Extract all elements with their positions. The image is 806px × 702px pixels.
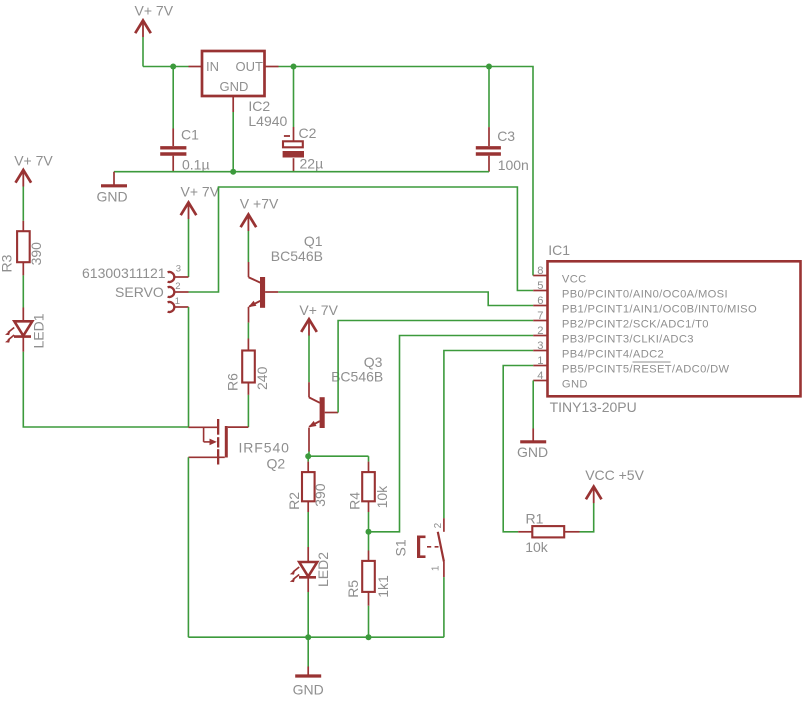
wire LED2 to bottom rail <box>307 592 309 637</box>
svg-text:GND: GND <box>517 444 548 460</box>
svg-text:PB0/PCINT0/AIN0/OC0A/MOSI: PB0/PCINT0/AIN0/OC0A/MOSI <box>562 288 728 300</box>
supply symbol V+ (Q1) <box>241 215 257 232</box>
resistor R5 1k1 <box>362 532 375 606</box>
resistor R1 10k (horizontal) <box>518 526 579 537</box>
wire LED1 to MOSFET gate <box>23 352 188 427</box>
svg-text:R5: R5 <box>345 580 361 598</box>
svg-text:390: 390 <box>312 483 328 507</box>
svg-text:BC546B: BC546B <box>331 369 383 385</box>
switch S1 pin 2 <box>443 518 445 532</box>
wire R6 to MOSFET drain <box>247 395 249 427</box>
svg-text:PB4/PCINT4/ADC2: PB4/PCINT4/ADC2 <box>562 348 664 360</box>
wire R1 to VCC arrow <box>580 503 594 532</box>
wire IC2 GND pin down <box>232 112 234 172</box>
svg-text:BC546B: BC546B <box>271 248 323 264</box>
svg-text:2: 2 <box>175 281 180 292</box>
resistor R2 390 <box>302 456 315 512</box>
label LED1 <box>31 313 47 348</box>
wire bottom rail to ground <box>307 637 309 666</box>
label R5 <box>345 580 361 598</box>
svg-text:R6: R6 <box>225 373 241 391</box>
svg-text:240: 240 <box>254 366 270 390</box>
wire Q3 emitter to node <box>308 452 310 457</box>
wire servo pin1 down to gate net <box>188 307 190 427</box>
junction C3/rail <box>486 64 492 70</box>
net label V+ 7V (servo) <box>181 184 220 200</box>
svg-text:3: 3 <box>176 264 181 275</box>
label 61300311121 <box>82 265 166 281</box>
capacitor C3 100n <box>476 67 501 172</box>
label IC2 <box>248 98 270 114</box>
svg-text:L4940: L4940 <box>248 113 287 129</box>
label R6 <box>225 373 241 391</box>
svg-text:3: 3 <box>537 340 543 352</box>
label Q2 <box>267 456 286 472</box>
wire Q3 base to IC1 PB2 pin7 <box>338 321 533 413</box>
wire Q1 emitter to R6 <box>247 323 249 339</box>
wire rail to IC2 IN <box>143 66 189 68</box>
svg-text:7: 7 <box>537 310 543 322</box>
junction C2/rail <box>291 64 297 70</box>
label R1 <box>526 511 544 527</box>
net label V+ 7V (top) <box>135 3 174 19</box>
label TINY13-20PU <box>550 399 637 415</box>
junction LED2/bottom rail <box>305 634 311 640</box>
svg-text:TINY13-20PU: TINY13-20PU <box>550 399 637 415</box>
svg-text:C1: C1 <box>181 127 199 143</box>
wire Q1 base to IC1 PB1 pin6 <box>278 292 533 306</box>
svg-text:IRF540: IRF540 <box>239 440 290 456</box>
label GND (bottom) <box>293 682 324 698</box>
LED LED1 <box>5 308 32 352</box>
svg-text:V+ 7V: V+ 7V <box>299 302 338 318</box>
label Q1 <box>304 233 323 249</box>
svg-text:S1: S1 <box>393 539 409 556</box>
svg-text:V+ 7V: V+ 7V <box>14 153 53 169</box>
junction C1/rail <box>170 64 176 70</box>
svg-text:22µ: 22µ <box>300 155 324 171</box>
wire rail to IC1 VCC pin8 <box>489 67 533 276</box>
svg-text:VCC: VCC <box>562 273 587 285</box>
wire MOSFET source down <box>187 457 189 637</box>
label 390 (R2) <box>312 483 328 507</box>
svg-text:VCC +5V: VCC +5V <box>585 467 644 483</box>
svg-text:Q3: Q3 <box>364 354 383 370</box>
MOSFET Q2 IRF540 <box>188 419 248 465</box>
svg-text:GND: GND <box>220 79 249 94</box>
wire R2 to LED2 <box>307 512 309 547</box>
net label V +7V (Q1) <box>240 196 279 212</box>
pin number 3 (SERVO) <box>176 264 181 275</box>
svg-text:2: 2 <box>433 522 444 528</box>
wire bottom rail <box>188 636 444 638</box>
connector SERVO pin 2 <box>168 287 189 297</box>
wire R5 to bottom rail <box>368 606 370 637</box>
svg-text:V+ 7V: V+ 7V <box>135 3 174 19</box>
svg-text:1: 1 <box>175 296 180 307</box>
pin number 2 (SERVO) <box>175 281 180 292</box>
svg-text:GND: GND <box>97 188 128 204</box>
label C2 <box>299 125 317 141</box>
wire R3 to LED1 <box>22 275 24 307</box>
pin number 1 (SERVO) <box>175 296 180 307</box>
pin number 2 (S1) <box>433 522 444 528</box>
junction IC2 GND/rail <box>230 169 236 175</box>
resistor R3 390 <box>17 221 30 276</box>
wire IC2 OUT rail <box>279 66 490 68</box>
label 240 (R6) <box>254 366 270 390</box>
wire V+ arrow to rail <box>142 37 144 67</box>
svg-text:Q2: Q2 <box>267 456 286 472</box>
label IC1 <box>548 242 570 258</box>
label 10k (R1) <box>525 539 549 555</box>
label R4 <box>346 492 362 510</box>
svg-text:8: 8 <box>537 265 543 277</box>
wire V+ to R3 <box>22 187 24 221</box>
label LED2 <box>315 552 331 587</box>
svg-text:SERVO: SERVO <box>115 284 164 300</box>
svg-text:PB5/PCINT5/RESET/ADC0/DW: PB5/PCINT5/RESET/ADC0/DW <box>562 363 730 375</box>
supply symbol V+ (servo) <box>181 203 197 220</box>
svg-text:0.1µ: 0.1µ <box>182 157 210 173</box>
svg-text:R3: R3 <box>0 254 15 272</box>
supply symbol V+ (LED1) <box>16 170 32 187</box>
svg-text:390: 390 <box>28 242 44 266</box>
wire V+ to Q1 collector <box>247 231 249 262</box>
label L4940 <box>248 113 287 129</box>
svg-text:1k1: 1k1 <box>375 575 391 598</box>
wire node to R4 <box>308 455 368 457</box>
net label V+ 7V (Q3) <box>299 302 338 318</box>
svg-text:1: 1 <box>431 565 442 571</box>
svg-text:OUT: OUT <box>236 59 264 74</box>
switch S1 actuator and contact <box>417 532 444 562</box>
capacitor C2 22u electrolytic <box>283 67 304 172</box>
svg-text:PB1/PCINT1/AIN1/OC0B/INT0/MISO: PB1/PCINT1/AIN1/OC0B/INT0/MISO <box>562 303 757 315</box>
label C3 <box>497 128 515 144</box>
label BC546B (Q3) <box>331 369 383 385</box>
svg-text:V +7V: V +7V <box>240 196 279 212</box>
connector SERVO pin 1 <box>168 302 189 312</box>
net label V+ 7V (LED1) <box>14 153 53 169</box>
svg-text:GND: GND <box>293 682 324 698</box>
svg-text:V+ 7V: V+ 7V <box>181 184 220 200</box>
svg-text:PB3/PCINT3/CLKI/ADC3: PB3/PCINT3/CLKI/ADC3 <box>562 333 694 345</box>
label GND (IC1) <box>517 444 548 460</box>
label 100n <box>498 157 529 173</box>
svg-text:IN: IN <box>206 59 219 74</box>
svg-text:61300311121: 61300311121 <box>82 265 166 281</box>
svg-text:IC1: IC1 <box>548 242 570 258</box>
label S1 <box>393 539 409 556</box>
svg-text:GND: GND <box>562 378 588 390</box>
svg-text:C2: C2 <box>299 125 317 141</box>
supply symbol V+ (top) <box>135 21 151 38</box>
wire IC1 GND pin4 down <box>532 381 534 429</box>
svg-text:PB2/PCINT2/SCK/ADC1/T0: PB2/PCINT2/SCK/ADC1/T0 <box>562 318 709 330</box>
connector SERVO pin 3 <box>168 272 189 282</box>
transistor Q3 BC546B (NPN, mirrored) <box>308 382 338 451</box>
LED LED2 <box>290 547 317 592</box>
svg-text:6: 6 <box>537 295 543 307</box>
label 22u <box>300 155 324 171</box>
label IRF540 <box>239 440 290 456</box>
pin number 1 (S1) <box>431 565 442 571</box>
resistor R4 10k <box>362 456 375 512</box>
label 10k (R4) <box>374 485 390 509</box>
label Q3 <box>364 354 383 370</box>
svg-text:10k: 10k <box>374 485 390 509</box>
svg-text:LED2: LED2 <box>315 552 331 587</box>
net label VCC +5V <box>585 467 644 483</box>
voltage regulator IC2 L4940 <box>189 51 279 112</box>
label BC546B (Q1) <box>271 248 323 264</box>
switch S1 pin 1 <box>443 562 445 578</box>
wire servo pin2 to IC1 PB0 pin5 <box>189 187 534 292</box>
wire junction to IC1 PB3 pin2 <box>369 336 534 532</box>
transistor Q1 BC546B (NPN, mirrored) <box>248 262 278 323</box>
svg-text:1: 1 <box>537 355 543 367</box>
svg-text:Q1: Q1 <box>304 233 323 249</box>
svg-text:4: 4 <box>537 370 543 382</box>
svg-text:R4: R4 <box>346 492 362 510</box>
junction Q3 emitter/R2/R4 <box>305 453 311 459</box>
label C1 <box>181 127 199 143</box>
svg-text:C3: C3 <box>497 128 515 144</box>
junction R5/bottom rail <box>366 634 372 640</box>
svg-text:R2: R2 <box>286 492 302 510</box>
label 390 (R3) <box>28 242 44 266</box>
svg-text:2: 2 <box>537 325 543 337</box>
label SERVO <box>115 284 164 300</box>
svg-text:R1: R1 <box>526 511 544 527</box>
svg-text:10k: 10k <box>525 539 549 555</box>
wire S1 to bottom rail <box>443 577 445 637</box>
supply symbol VCC +5V supply <box>586 487 602 504</box>
svg-text:IC2: IC2 <box>248 98 270 114</box>
supply symbol V+ (Q3) <box>301 319 317 336</box>
label R3 <box>0 254 15 272</box>
ground (regulator) <box>101 172 127 186</box>
wire R4 to junction <box>368 512 370 532</box>
wire V+ to Q3 collector <box>308 336 310 383</box>
capacitor C1 0.1u <box>160 67 186 172</box>
junction R4/R5/PB3 <box>366 529 372 535</box>
label 1k1 (R5) <box>375 575 391 598</box>
label R2 <box>286 492 302 510</box>
svg-text:5: 5 <box>537 280 543 292</box>
label 0.1u <box>182 157 210 173</box>
wire IC1 PB5 pin1 to R1 <box>503 366 533 532</box>
label GND (regulator) <box>97 188 128 204</box>
wire IC1 PB4 pin3 to S1 <box>444 351 533 519</box>
resistor R6 240 <box>242 339 255 395</box>
ground (IC1) <box>520 429 546 442</box>
ground (bottom) <box>295 667 321 677</box>
svg-text:100n: 100n <box>498 157 529 173</box>
svg-text:LED1: LED1 <box>31 313 47 348</box>
wire V+ to servo pin3 <box>188 219 190 277</box>
wire GND rail <box>114 171 489 173</box>
IC U1 ATtiny13 box <box>533 261 800 396</box>
